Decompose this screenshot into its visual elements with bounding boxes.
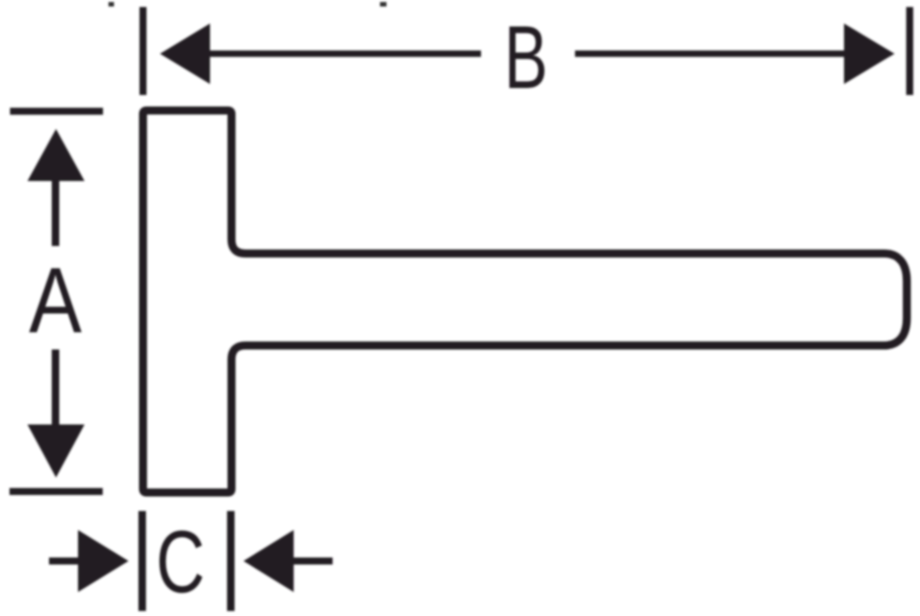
dimension C: right arrowhead (points left) bbox=[244, 530, 294, 592]
svg-text:A: A bbox=[29, 249, 82, 352]
dimension B: left arrowhead bbox=[160, 24, 210, 85]
dimension B: left line segment bbox=[208, 51, 481, 57]
dimension A: up arrowhead bbox=[28, 129, 85, 181]
dimension A: upper shaft bbox=[52, 179, 60, 246]
dimension A: lower shaft bbox=[52, 350, 60, 427]
dimension C: left arrowhead (points right) bbox=[78, 530, 129, 592]
stray mark left bbox=[109, 2, 115, 7]
dimension C: right extension line bbox=[227, 511, 235, 611]
T-shape body outline bbox=[143, 111, 907, 493]
dimension B: right line segment bbox=[575, 51, 846, 57]
dimension C: left extension line bbox=[138, 511, 146, 611]
dimension C: left tail bbox=[49, 558, 89, 565]
dimension A: down arrowhead bbox=[28, 425, 85, 478]
dimension A: top tick bbox=[10, 108, 103, 115]
dimension B: right extension line bbox=[906, 7, 913, 95]
svg-text:C: C bbox=[156, 512, 205, 611]
dimension C: right tail bbox=[293, 558, 333, 565]
dimension B: right arrowhead bbox=[844, 24, 895, 85]
dimension B: left extension line bbox=[140, 7, 147, 95]
svg-text:B: B bbox=[504, 7, 548, 107]
stray mark right bbox=[380, 2, 387, 7]
dimension A: bottom tick bbox=[10, 488, 103, 495]
